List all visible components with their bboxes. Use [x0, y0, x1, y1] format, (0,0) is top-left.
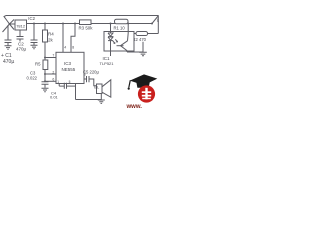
- capacitor C4 0.01: [59, 83, 75, 100]
- LED inside optocoupler: [108, 23, 117, 57]
- svg-text:4: 4: [64, 45, 66, 49]
- wire under R2: [142, 42, 144, 52]
- resistor R5: [43, 58, 48, 82]
- capacitor C1 470u: [5, 25, 12, 46]
- wire top rail +12V: [27, 23, 153, 25]
- logo graduation cap: [128, 74, 158, 89]
- switch to lamp L at corner: [151, 16, 160, 25]
- svg-text:IC3: IC3: [64, 61, 72, 66]
- svg-text:2: 2: [52, 70, 54, 74]
- ground under C1: [5, 46, 12, 50]
- svg-text:8: 8: [72, 45, 74, 49]
- ground under C3: [42, 88, 49, 92]
- label C3 0.022: [27, 71, 38, 81]
- svg-text:C5 220µ: C5 220µ: [83, 70, 100, 75]
- svg-text:www.: www.: [126, 104, 143, 110]
- label IC1 TLP521: [100, 56, 115, 66]
- wire rail to pin8: [71, 23, 76, 53]
- svg-text:R3 50k: R3 50k: [79, 26, 94, 31]
- svg-text:5: 5: [69, 80, 71, 84]
- capacitor C5 220u on pin3: [84, 76, 97, 86]
- svg-text:470µ: 470µ: [3, 59, 14, 65]
- IC3 NE555 box: [52, 52, 85, 84]
- svg-text:7812: 7812: [16, 23, 26, 28]
- emitter wire to ground: [127, 51, 143, 53]
- capacitor on rail at x34: [31, 23, 38, 46]
- label C4 0.01: [50, 91, 59, 100]
- svg-text:TLP521: TLP521: [100, 61, 115, 66]
- capacitor C3 0.022: [42, 82, 49, 88]
- svg-text:IC2: IC2: [28, 16, 35, 21]
- svg-text:0.01: 0.01: [50, 95, 59, 100]
- wire rail to pin4: [62, 23, 66, 53]
- svg-text:2k: 2k: [48, 38, 54, 43]
- svg-text:0.022: 0.022: [27, 76, 38, 81]
- resistor R3 50k: [79, 20, 94, 31]
- phototransistor inside optocoupler: [117, 23, 130, 53]
- svg-text:R2 470: R2 470: [133, 37, 147, 42]
- resistor R4 2k: [43, 23, 48, 58]
- svg-text:R5: R5: [35, 61, 41, 66]
- node pin2 stub: [44, 73, 56, 75]
- svg-text:7: 7: [52, 54, 54, 58]
- resistor R1 10: [114, 19, 129, 30]
- svg-text:6: 6: [52, 78, 54, 82]
- svg-text:470µ: 470µ: [16, 47, 27, 52]
- ground under speaker: [98, 100, 105, 103]
- bridge rectifier: [3, 16, 16, 33]
- wire bottom rail: [76, 99, 102, 101]
- wire top return line: [6, 15, 159, 17]
- ground: [31, 45, 38, 49]
- speaker BL: [94, 80, 111, 100]
- label C1 470u: [1, 53, 14, 65]
- svg-text:R1 10: R1 10: [114, 25, 126, 30]
- node pin7 stub: [44, 57, 56, 59]
- regulator IC2 7812: [15, 20, 27, 30]
- capacitor C2 470u: [17, 30, 24, 42]
- svg-text:BL: BL: [94, 84, 100, 89]
- optocoupler IC1 TLP521 box: [104, 32, 134, 52]
- ground right: [139, 52, 147, 56]
- resistor R2 470: [133, 32, 148, 43]
- label R4 2k: [48, 32, 54, 43]
- svg-text:NE555: NE555: [62, 67, 76, 72]
- logo red circle emblem: [138, 85, 155, 102]
- svg-text:R4: R4: [48, 32, 54, 37]
- label C2 470u: [16, 42, 27, 52]
- node pin6 stub: [44, 80, 56, 82]
- wire right edge down from corner: [157, 16, 159, 34]
